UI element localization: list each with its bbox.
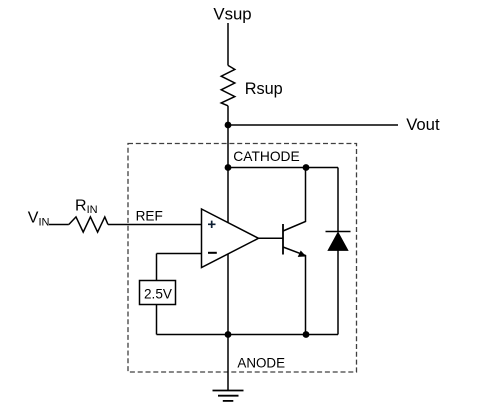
wire Vsup lead — [227, 23, 229, 65]
wire resistor to Vout node — [227, 106, 229, 125]
voltage reference 2.5V box — [140, 281, 176, 305]
svg-text:Vsup: Vsup — [213, 4, 251, 23]
op-amp plus input symbol — [208, 221, 216, 228]
node Vout junction dot — [225, 122, 232, 129]
wire inverting input down to 2.5V reference — [156, 254, 158, 281]
op-amp U1 comparator triangle — [202, 209, 259, 268]
dashed IC boundary box — [128, 144, 357, 373]
diode D1 branch top wire — [337, 168, 339, 232]
wire top rail — [228, 167, 338, 169]
transistor Q1 base bar — [282, 224, 284, 255]
op-amp minus input symbol — [208, 252, 217, 254]
svg-text:CATHODE: CATHODE — [233, 149, 299, 164]
node anode rail emitter junction dot — [303, 331, 310, 338]
wire internal cathode vertical (behind op-amp) — [227, 168, 229, 335]
svg-text:Rsup: Rsup — [245, 80, 283, 98]
ground symbol — [213, 390, 244, 392]
resistor RIN — [69, 217, 108, 232]
diode D1 cathode bar — [326, 231, 351, 233]
wire anode rail — [157, 334, 339, 336]
wire 2.5V box to anode rail — [156, 305, 158, 335]
wire VIN lead — [49, 224, 69, 226]
wire inverting input horizontal — [157, 253, 202, 255]
wire REF input to op-amp + — [108, 224, 202, 226]
node anode rail left junction dot — [225, 331, 232, 338]
wire op-amp output to transistor base — [259, 237, 284, 239]
wire anode to ground — [227, 335, 229, 391]
svg-text:ANODE: ANODE — [237, 355, 285, 370]
svg-text:Vout: Vout — [406, 115, 440, 134]
diode D1 triangle — [328, 232, 348, 250]
transistor Q1 emitter arrowhead — [298, 251, 305, 257]
node top rail collector junction dot — [303, 164, 310, 171]
wire cathode vertical (Vout node to top rail) — [227, 125, 229, 168]
diode D1 branch bottom wire — [337, 251, 339, 335]
node top rail left junction dot — [225, 164, 232, 171]
svg-text:2.5V: 2.5V — [144, 286, 172, 301]
resistor Rsup — [221, 65, 235, 105]
wire Vout horizontal — [228, 124, 398, 126]
transistor Q1 collector — [283, 168, 306, 232]
svg-text:REF: REF — [136, 208, 163, 223]
transistor Q1 emitter — [283, 247, 306, 335]
